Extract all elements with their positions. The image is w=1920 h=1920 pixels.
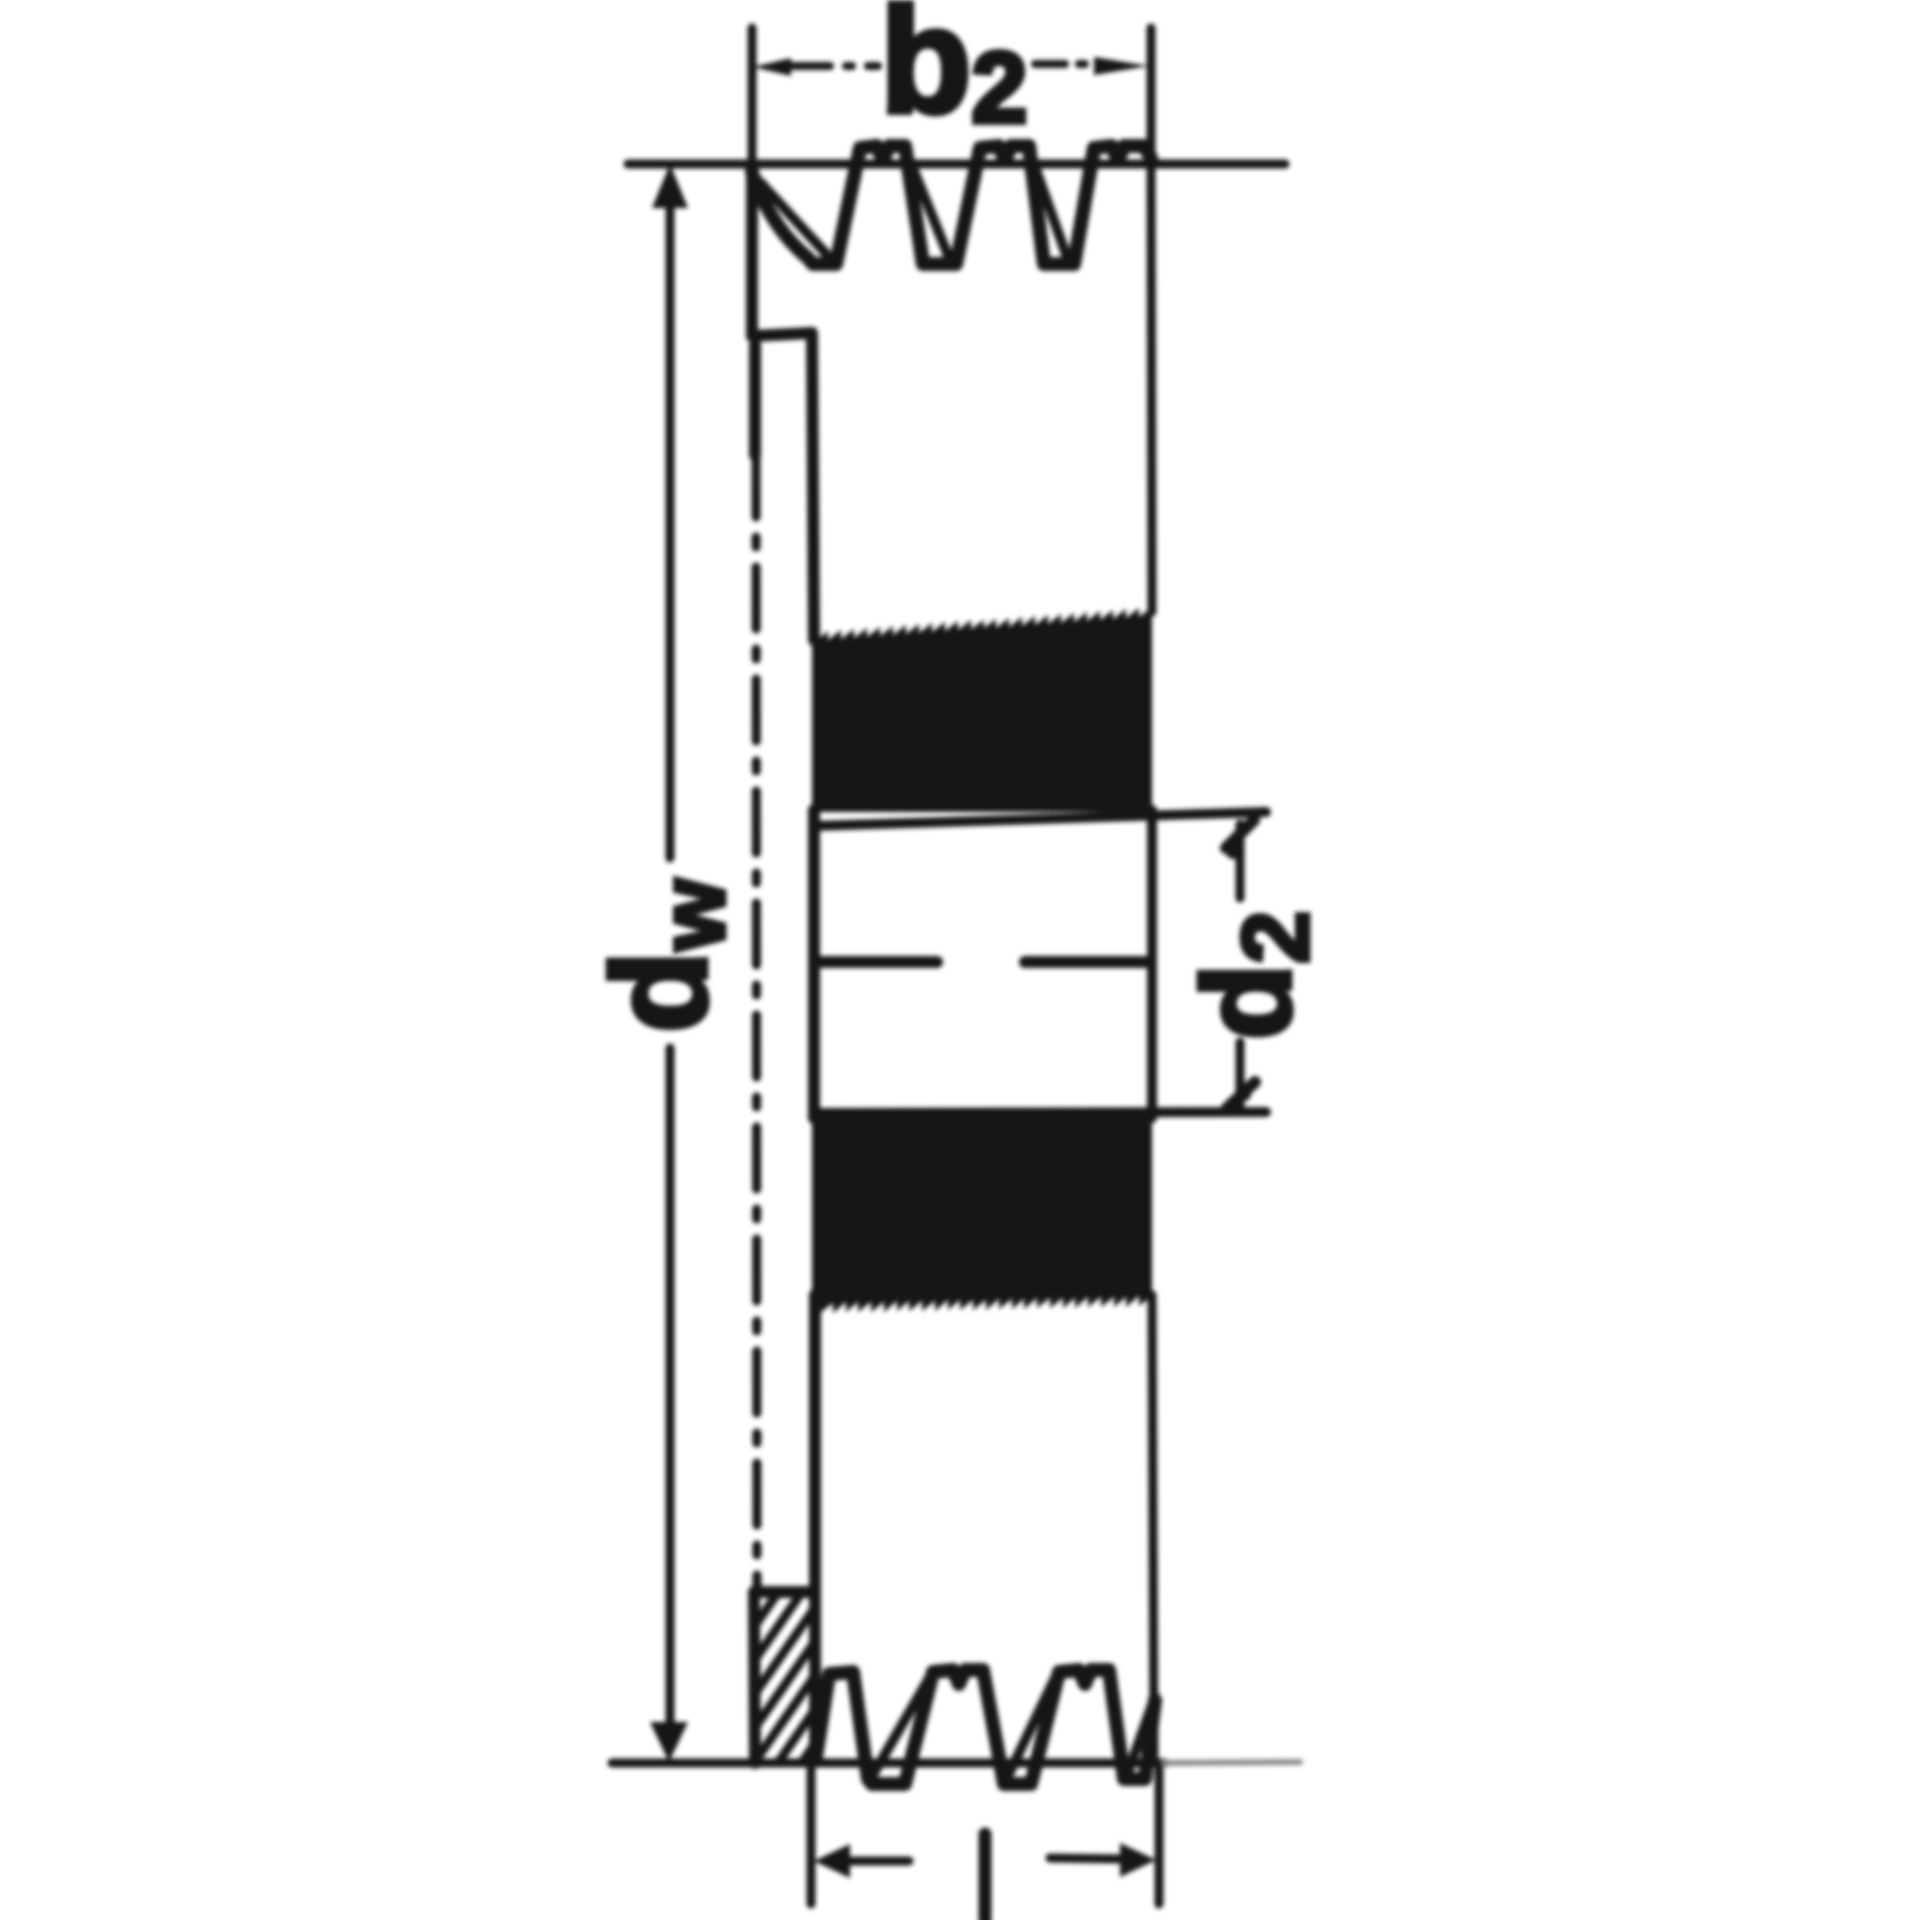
b2 extension line right	[1147, 28, 1156, 164]
black section band upper	[812, 607, 1152, 812]
groove far-flank slash bottom v3	[1126, 1705, 1152, 1778]
d2 tick bottom	[1227, 1082, 1255, 1108]
bottom dimension extension line right	[1155, 1770, 1164, 1904]
d2 tick top	[1226, 820, 1254, 848]
rim step bottom	[754, 1586, 813, 1598]
wire: top horizontal line (dw upper extension / groove top line)	[628, 160, 1285, 169]
bottom dimension arrowhead right	[1120, 1843, 1156, 1877]
pulley rim outer edge left (top section)	[746, 164, 758, 336]
bore keyway dashed line right	[1025, 956, 1150, 968]
bottom dimension arrow shaft right	[1050, 1858, 1122, 1859]
wire: bottom horizontal line (dw lower extension / groove bottom line)	[612, 1759, 1165, 1768]
rim outer edge left (bottom section)	[754, 1592, 755, 1763]
bottom V-groove profile	[816, 1670, 1155, 1784]
d2 tick dot top	[1226, 845, 1240, 859]
d2 tick dot bottom	[1237, 1087, 1251, 1101]
groove far-flank slash v2	[908, 156, 950, 260]
rim step top	[752, 333, 811, 336]
top V-groove profile	[752, 146, 1151, 264]
bottom dimension arrow shaft left	[845, 1857, 909, 1866]
bottom dimension arrowhead left	[814, 1844, 850, 1878]
groove far-flank slash v1	[760, 182, 830, 258]
hub top line with d2 top extension	[813, 812, 1266, 826]
black section band lower	[812, 1116, 1152, 1313]
dw dimension line	[666, 200, 675, 858]
groove far-flank slash bottom v2	[1006, 1680, 1054, 1780]
bottom dimension extension line left	[807, 1770, 816, 1904]
bottom centre stub	[979, 1834, 992, 1920]
phantom dash line below step	[749, 345, 761, 455]
dw arrowhead top	[652, 164, 688, 208]
b2 arrowhead right	[1094, 57, 1149, 75]
groove far-flank slash bottom v1	[870, 1680, 928, 1780]
web line left (x=813)	[812, 333, 814, 640]
d2 dimension line	[1236, 824, 1245, 898]
b2 arrowhead left	[753, 58, 791, 76]
groove far-flank slash v3	[1030, 153, 1068, 260]
dw arrowhead bottom	[650, 1722, 688, 1762]
hub bottom line with d2 bottom extension	[813, 1112, 1266, 1113]
hatched strip bottom-left	[745, 1525, 825, 1878]
b2 dimension line (dash-dot)	[790, 62, 878, 70]
bore keyway dashed line left	[817, 956, 937, 968]
b2 extension line left	[748, 28, 757, 164]
body right edge	[1151, 164, 1152, 612]
